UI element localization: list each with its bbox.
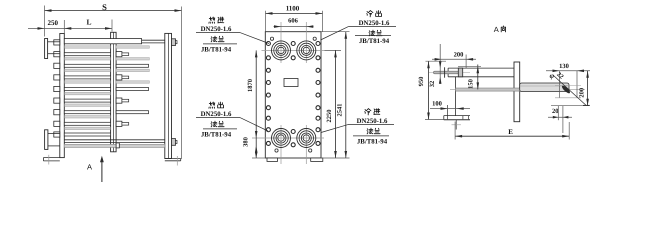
nozzle centerlines xyxy=(262,49,325,51)
dimension 150 xyxy=(477,65,479,90)
right foot pad xyxy=(311,158,323,161)
bottom guide bar xyxy=(64,139,165,141)
svg-text:1100: 1100 xyxy=(286,5,300,13)
bottom-left nozzle neck xyxy=(48,133,60,135)
plate pack gray band xyxy=(65,69,111,71)
svg-text:380: 380 xyxy=(242,137,249,147)
tie bolt row 3 xyxy=(64,64,110,67)
flange bolts xyxy=(266,42,270,46)
gray stud end right of movable plate xyxy=(116,46,149,48)
svg-text:950: 950 xyxy=(418,77,425,87)
label cold-in (bottom right) xyxy=(365,109,371,115)
plate pack gray band xyxy=(65,116,111,118)
dimension S (overall length, left view) xyxy=(45,10,182,12)
A-view carrying bar / rod xyxy=(450,89,585,91)
plate pack gray band xyxy=(65,81,111,83)
svg-text:L: L xyxy=(86,18,91,27)
svg-text:E: E xyxy=(508,128,513,136)
svg-text:2541: 2541 xyxy=(336,104,343,117)
A-view flange boss xyxy=(458,68,462,77)
tie bolt row 1 xyxy=(54,40,60,45)
nozzle flanges (4x concentric circles) xyxy=(272,41,291,60)
A-view bracket vertical xyxy=(455,77,457,116)
leader hot-out xyxy=(240,118,268,131)
gray stud end right of movable plate xyxy=(116,58,149,60)
tie bolt row 7 xyxy=(64,111,110,114)
label hot-in (top left) xyxy=(209,17,215,23)
left foot pad xyxy=(267,158,278,161)
dimension 2250 xyxy=(335,50,337,158)
A-view flange plate edge lines xyxy=(448,67,514,69)
plate pack gray band xyxy=(65,46,111,48)
dimension 950 xyxy=(428,61,430,119)
svg-text:JB/T81-94: JB/T81-94 xyxy=(359,38,390,45)
svg-text:A: A xyxy=(87,162,92,171)
svg-text:DN250-1.6: DN250-1.6 xyxy=(357,118,388,125)
phi22 leader xyxy=(554,76,587,106)
A-view bottom lug xyxy=(444,115,470,117)
svg-text:250: 250 xyxy=(48,19,59,27)
nameplate xyxy=(284,79,298,87)
top-left nozzle flange disc xyxy=(45,39,48,59)
plate pack gray band xyxy=(65,104,111,106)
svg-text:DN250-1.6: DN250-1.6 xyxy=(201,26,232,33)
svg-text:S: S xyxy=(102,2,107,12)
extension line flange face xyxy=(44,6,46,37)
dimension 32 xyxy=(439,44,441,84)
plate pack gray band xyxy=(65,58,111,60)
tie bolt row 2 xyxy=(64,53,110,56)
gray stud end right of movable plate xyxy=(116,69,149,71)
top-left nozzle neck xyxy=(48,41,60,43)
svg-text:DN250-1.6: DN250-1.6 xyxy=(359,20,390,27)
gray stud end right of movable plate xyxy=(116,81,149,83)
carrying bar nut at column xyxy=(172,39,176,46)
svg-text:φ: φ xyxy=(550,71,555,80)
dimension 2541 xyxy=(345,32,347,158)
dimension 1870 xyxy=(255,50,257,138)
fixed plate foot xyxy=(43,157,59,159)
label hot-out (bottom left) xyxy=(209,102,215,108)
frame plate front view xyxy=(265,32,321,158)
A-view flange disc edge xyxy=(444,67,446,77)
movable pressure plate xyxy=(111,32,117,152)
tie bolt row 6 xyxy=(64,99,110,102)
slot extension lines xyxy=(559,71,561,98)
svg-text:JB/T81-94: JB/T81-94 xyxy=(201,132,232,139)
svg-text:100: 100 xyxy=(432,100,442,107)
tie bolt row 8 xyxy=(64,122,110,125)
dimension L (plate pack length) xyxy=(105,27,112,30)
tie bolt row 5 xyxy=(64,88,110,91)
support column xyxy=(165,33,172,158)
plate pack gray band xyxy=(65,92,111,94)
fixed frame plate xyxy=(60,34,65,158)
svg-text:A: A xyxy=(494,25,499,34)
svg-text:130: 130 xyxy=(559,63,569,70)
svg-text:150: 150 xyxy=(467,79,474,89)
tie bolt row 4 xyxy=(64,76,110,79)
leader hot-in xyxy=(240,33,269,44)
bottom-left nozzle flange disc xyxy=(45,130,48,150)
A-view frame plate xyxy=(514,62,520,122)
dimension 200 (A-view right) xyxy=(587,71,589,106)
column foot xyxy=(165,158,181,160)
small vent holes xyxy=(270,37,273,40)
svg-text:32: 32 xyxy=(429,81,436,88)
svg-text:20: 20 xyxy=(552,108,559,115)
svg-text:606: 606 xyxy=(288,17,299,24)
svg-text:200: 200 xyxy=(579,88,586,98)
tie bolt row 9 xyxy=(64,133,110,136)
label cold-out (top right) xyxy=(367,11,373,17)
svg-text:2250: 2250 xyxy=(326,110,333,123)
leader cold-in xyxy=(321,125,348,133)
lower gray rod xyxy=(64,144,165,147)
A-view nozzle stud xyxy=(429,72,470,74)
dimension 250 (nozzle protrusion) xyxy=(28,27,112,29)
svg-text:JB/T81-94: JB/T81-94 xyxy=(201,47,232,54)
plate pack gray band xyxy=(65,127,111,129)
nut right of movable plate bottom xyxy=(116,143,119,148)
svg-text:1870: 1870 xyxy=(247,79,254,92)
svg-text:DN250-1.6: DN250-1.6 xyxy=(201,111,232,118)
leader cold-out xyxy=(321,27,349,40)
guide bar nut at column xyxy=(172,139,176,146)
top carrying bar xyxy=(64,39,141,44)
dimension 380 xyxy=(255,138,257,158)
svg-text:JB/T81-94: JB/T81-94 xyxy=(357,139,388,146)
svg-text:200: 200 xyxy=(454,51,464,58)
extension line right foot edge xyxy=(181,7,183,160)
